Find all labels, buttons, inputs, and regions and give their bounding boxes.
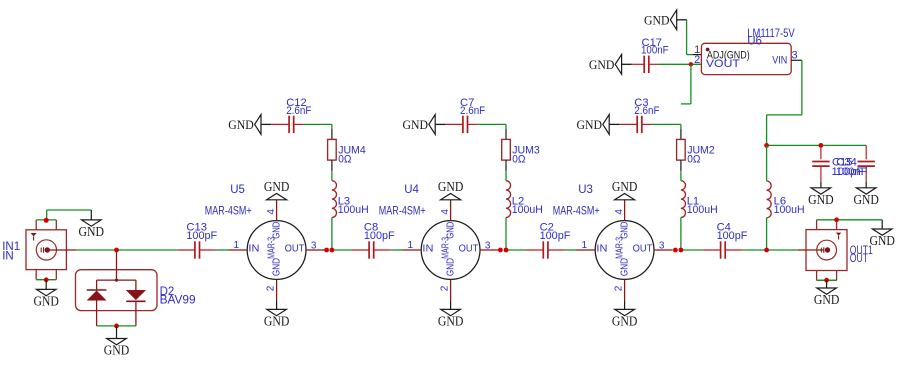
capacitor C15 (812, 145, 829, 182)
svg-text:GND: GND (612, 314, 638, 329)
ground flag for C12 (228, 115, 271, 135)
svg-text:IN: IN (248, 244, 259, 255)
wire OUT1 top to ground (817, 219, 883, 221)
svg-text:GND: GND (446, 258, 457, 276)
op-amp U4 MAR-4SM+ (403, 200, 499, 301)
svg-text:IN: IN (596, 244, 607, 255)
capacitor C2 (526, 241, 565, 258)
svg-text:U5: U5 (230, 184, 245, 196)
svg-text:U4: U4 (404, 184, 419, 196)
junction VIN/C15 (819, 143, 824, 148)
ground below OUT1 (814, 280, 840, 307)
capacitor C34 (858, 145, 875, 182)
label L2 (512, 196, 543, 217)
label IN1 (2, 241, 20, 262)
ground right of IN1 (79, 210, 105, 239)
junction U3 out (673, 248, 683, 253)
svg-text:U6: U6 (747, 35, 762, 47)
svg-text:GND: GND (620, 222, 631, 239)
resistor JUM3 (502, 129, 511, 171)
wire IN1 bottom tab (36, 279, 56, 281)
junction U5 out (324, 248, 334, 253)
ground below U4 (438, 300, 464, 328)
ground flag for C3 (577, 115, 620, 135)
ground below D2 (104, 326, 130, 358)
wire VIN to L6 (766, 145, 768, 181)
svg-text:GND: GND (644, 13, 670, 27)
svg-text:OUT: OUT (850, 253, 868, 265)
svg-text:GND: GND (79, 224, 105, 239)
wire VIN rail (767, 144, 867, 146)
diode D2 (76, 270, 158, 326)
wire C12 to jumper column (304, 124, 332, 129)
junction OUT1 bottom (824, 278, 829, 283)
ground right of OUT1 (869, 220, 895, 248)
wire C17 to U6 pin2 (659, 63, 702, 65)
wire VOUT stub (681, 64, 691, 104)
svg-text:100nF: 100nF (641, 45, 669, 57)
label L3 (338, 196, 369, 217)
svg-text:GND: GND (869, 233, 895, 248)
junction U6 pin2 (689, 62, 693, 66)
junction IN1 bottom (44, 277, 49, 282)
svg-text:2: 2 (266, 285, 277, 291)
svg-text:GND: GND (403, 118, 429, 132)
svg-text:MAR-4SM+: MAR-4SM+ (553, 205, 600, 217)
svg-text:0Ω: 0Ω (687, 153, 700, 165)
svg-text:VOUT: VOUT (706, 58, 740, 70)
svg-text:2.6nF: 2.6nF (460, 105, 485, 117)
label C4 (717, 222, 748, 242)
label L1 (687, 196, 718, 217)
svg-text:GND: GND (620, 258, 631, 276)
label C7 (460, 97, 485, 117)
inductor L6 (767, 181, 772, 218)
label C8 (364, 222, 395, 242)
label C3 (634, 97, 659, 117)
label L6 (774, 196, 805, 217)
svg-text:IN: IN (422, 244, 433, 255)
wire L6 to main net (766, 218, 768, 250)
svg-text:MAR-4SM+: MAR-4SM+ (379, 205, 426, 217)
svg-text:0Ω: 0Ω (512, 153, 525, 165)
junction OUT1 top (834, 217, 839, 222)
inductor L3 (332, 181, 337, 218)
label C2 (540, 222, 571, 242)
label C13 (186, 222, 217, 242)
svg-text:4: 4 (440, 209, 451, 215)
wire L1 to main net (680, 218, 682, 251)
svg-text:100nF: 100nF (836, 166, 868, 178)
label JUM4 (338, 145, 366, 166)
svg-text:4: 4 (266, 209, 277, 215)
op-amp U5 MAR-4SM+ (229, 200, 325, 301)
wire JUM4 to L3 (331, 171, 333, 181)
junction node main/D2 (114, 248, 119, 253)
connector OUT1 (806, 220, 847, 280)
svg-text:100uH: 100uH (774, 204, 805, 216)
svg-text:IN: IN (2, 251, 14, 263)
wire IN1 top to ground (36, 210, 91, 220)
ground flag for C7 (403, 115, 446, 135)
svg-text:GND: GND (612, 179, 638, 194)
svg-text:2.6nF: 2.6nF (634, 105, 659, 117)
label OUT1 (850, 245, 873, 265)
junction D2 bottom (114, 324, 119, 329)
wire main signal net segments (77, 249, 798, 251)
svg-text:GND: GND (446, 222, 457, 239)
svg-text:100pF: 100pF (717, 230, 748, 242)
wire C7 to jumper column (478, 124, 506, 129)
svg-text:GND: GND (814, 292, 840, 307)
capacitor C4 (703, 241, 742, 258)
svg-text:1: 1 (407, 240, 413, 251)
svg-text:1: 1 (581, 240, 587, 251)
ground below IN1 (33, 280, 59, 309)
ground below U3 (612, 300, 638, 328)
svg-text:2.6nF: 2.6nF (286, 105, 311, 117)
label U4 (379, 184, 426, 218)
svg-text:100uH: 100uH (338, 204, 369, 216)
pin IN1 output (49, 249, 77, 251)
svg-text:100uH: 100uH (687, 204, 718, 216)
capacitor C8 (352, 241, 391, 258)
svg-text:100uH: 100uH (512, 204, 543, 216)
ground below cap at x=866.2 (853, 182, 879, 207)
svg-text:GND: GND (589, 58, 615, 72)
svg-text:100pF: 100pF (186, 230, 217, 242)
junction L6 main (764, 248, 769, 253)
svg-text:3: 3 (485, 240, 491, 251)
junction U4 out (498, 248, 508, 253)
svg-text:VIN: VIN (772, 54, 787, 66)
svg-text:MAR-4SM+: MAR-4SM+ (205, 205, 252, 217)
ground above U3 (612, 179, 638, 200)
svg-text:MAR-3: MAR-3 (267, 237, 278, 259)
svg-text:MAR-3: MAR-3 (615, 237, 626, 259)
wire GND to U6 pin1 (687, 20, 693, 55)
svg-text:OUT: OUT (633, 244, 653, 255)
svg-text:2: 2 (614, 285, 625, 291)
wire D2 to main net (116, 250, 118, 280)
svg-text:1: 1 (233, 240, 239, 251)
junction VIN/L6 (764, 143, 769, 148)
svg-text:GND: GND (33, 294, 59, 309)
ground below U5 (264, 300, 290, 328)
svg-text:BAV99: BAV99 (160, 294, 196, 306)
svg-text:GND: GND (272, 222, 283, 239)
label C15 (overlapped) (832, 157, 864, 178)
label D2 (160, 286, 196, 306)
label C34 (overlapped) (836, 157, 868, 178)
label C17 (641, 37, 669, 57)
svg-text:100pF: 100pF (364, 230, 395, 242)
inductor L1 (681, 181, 686, 218)
svg-text:OUT: OUT (459, 244, 479, 255)
svg-text:100pF: 100pF (540, 230, 571, 242)
label U5 (205, 184, 252, 218)
svg-text:GND: GND (438, 314, 464, 329)
svg-text:GND: GND (264, 314, 290, 329)
resistor JUM2 (677, 129, 686, 171)
svg-text:4: 4 (614, 209, 625, 215)
wire D2 bottom (97, 325, 136, 327)
label C12 (286, 97, 311, 117)
capacitor C13 (178, 241, 217, 258)
capacitor C3 (619, 116, 652, 133)
resistor JUM4 (328, 129, 337, 171)
svg-text:MAR-3: MAR-3 (441, 237, 452, 259)
svg-text:OUT: OUT (285, 244, 305, 255)
wire L3 to main net (331, 218, 333, 251)
wire U6 VIN to L6 (767, 60, 802, 145)
wire OUT1 bottom tab (817, 279, 837, 281)
svg-text:GND: GND (438, 179, 464, 194)
ground above U4 (438, 179, 464, 200)
svg-text:GND: GND (853, 192, 879, 207)
label JUM2 (687, 145, 715, 166)
regulator U6 LM1117-5V (692, 43, 802, 74)
connector IN1 (26, 220, 66, 280)
ground flag for C17 (589, 54, 632, 74)
svg-text:0Ω: 0Ω (338, 153, 351, 165)
ground above U5 (264, 179, 290, 200)
svg-text:GND: GND (272, 258, 283, 276)
label U3 (553, 184, 600, 218)
capacitor C17 (632, 56, 659, 73)
inductor L2 (506, 181, 511, 218)
svg-text:GND: GND (808, 192, 834, 207)
capacitor C12 (271, 116, 304, 133)
ground flag at U6 pin 1 (644, 10, 687, 30)
pin OUT1 input (798, 249, 824, 251)
capacitor C7 (445, 116, 477, 133)
svg-text:GND: GND (104, 343, 130, 358)
label JUM3 (512, 145, 540, 166)
wire JUM2 to L1 (680, 171, 682, 181)
svg-text:U3: U3 (578, 184, 593, 196)
svg-text:2: 2 (440, 285, 451, 291)
ground below cap at x=820.9 (808, 182, 834, 207)
svg-text:GND: GND (228, 118, 254, 132)
junction IN1 top (44, 218, 49, 223)
label U6 LM1117-5V (747, 28, 795, 48)
svg-text:GND: GND (577, 118, 603, 132)
wire L2 to main net (505, 218, 507, 251)
svg-text:3: 3 (311, 240, 317, 251)
svg-text:GND: GND (264, 179, 290, 194)
wire JUM3 to L2 (505, 171, 507, 181)
svg-text:3: 3 (659, 240, 665, 251)
op-amp U3 MAR-4SM+ (577, 200, 673, 301)
wire C3 to jumper column (652, 124, 681, 129)
